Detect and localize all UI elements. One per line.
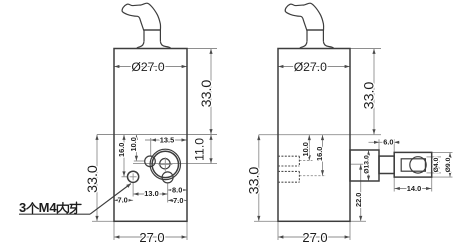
svg-text:Ø13.0: Ø13.0 (364, 155, 371, 174)
svg-text:27.0: 27.0 (302, 230, 327, 245)
svg-text:Ø27.0: Ø27.0 (294, 60, 327, 74)
svg-text:10.0: 10.0 (129, 137, 138, 151)
svg-text:16.0: 16.0 (315, 147, 324, 161)
svg-text:13.5: 13.5 (160, 135, 174, 144)
svg-text:3: 3 (19, 200, 26, 215)
svg-text:33.0: 33.0 (199, 80, 215, 108)
svg-text:13.0: 13.0 (144, 189, 158, 198)
svg-text:10.0: 10.0 (301, 142, 310, 156)
svg-text:11.0: 11.0 (193, 138, 207, 161)
svg-text:Ø27.0: Ø27.0 (131, 60, 164, 74)
svg-text:M4: M4 (39, 200, 58, 215)
svg-text:14.0: 14.0 (407, 184, 421, 193)
svg-text:7.0: 7.0 (173, 196, 183, 205)
svg-text:7.0: 7.0 (117, 196, 127, 205)
svg-text:33.0: 33.0 (362, 82, 378, 110)
svg-text:33.0: 33.0 (85, 165, 101, 193)
svg-text:6.0: 6.0 (383, 137, 393, 146)
svg-text:22.0: 22.0 (354, 193, 363, 207)
svg-text:27.0: 27.0 (139, 230, 164, 245)
svg-text:Ø9.0: Ø9.0 (445, 157, 452, 172)
svg-text:8.0: 8.0 (172, 185, 182, 194)
svg-text:Ø4.0: Ø4.0 (433, 157, 440, 172)
svg-text:16.0: 16.0 (117, 143, 126, 157)
svg-text:33.0: 33.0 (247, 167, 263, 195)
